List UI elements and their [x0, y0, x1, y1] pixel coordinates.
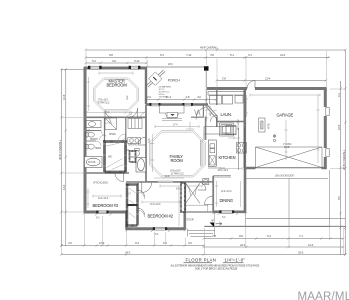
- svg-text:3'-0: 3'-0: [188, 241, 192, 245]
- window master top 2: [129, 65, 141, 70]
- svg-text:ATTIC: ATTIC: [268, 123, 271, 129]
- svg-text:4'-6: 4'-6: [112, 59, 116, 63]
- family NE wall stub: [202, 106, 204, 118]
- svg-text:3'-1: 3'-1: [248, 53, 252, 57]
- svg-text:9'-8: 9'-8: [239, 234, 243, 238]
- dining top cased opening: [213, 176, 231, 177]
- svg-text:6'0 TUB: 6'0 TUB: [88, 161, 96, 164]
- garage bottom wall: [245, 167, 327, 170]
- dimension line bottom overall: [61, 254, 345, 256]
- dimension line porch south: [146, 99, 216, 101]
- dining right exterior wall: [244, 168, 247, 212]
- family window left: [149, 103, 160, 107]
- svg-text:25'-6: 25'-6: [298, 250, 304, 254]
- dim extension verticals bottom: [61, 214, 344, 255]
- exterior wall master top: [84, 67, 147, 70]
- stoop top edge: [185, 204, 208, 206]
- entry door arc: [196, 107, 209, 120]
- svg-text:12'-8: 12'-8: [99, 241, 105, 245]
- family octagon tray: [150, 131, 206, 178]
- svg-text:9' TRAY CLG: 9' TRAY CLG: [98, 101, 110, 104]
- A/C diamond closet: [149, 72, 162, 85]
- family room south wall: [146, 181, 213, 183]
- dining bottom wall: [213, 211, 246, 214]
- master door arc: [129, 108, 138, 117]
- kitchen right counter: [239, 128, 245, 170]
- dim extension verticals top: [86, 50, 345, 87]
- garage interior micro dims: [250, 94, 320, 164]
- porch front edge: [147, 66, 206, 68]
- stoop side rails: [185, 212, 214, 229]
- hall bath wall y150: [126, 149, 129, 151]
- svg-text:49'-8" OVERALL: 49'-8" OVERALL: [200, 46, 219, 50]
- svg-text:6'-1: 6'-1: [337, 93, 341, 97]
- family room west wall: [145, 105, 147, 183]
- svg-text:9'-8: 9'-8: [109, 53, 113, 57]
- laundry door arc: [211, 115, 218, 122]
- interior dim clutter kitchen: [205, 107, 243, 170]
- dimension line bottom right upper: [204, 238, 343, 240]
- svg-text:2'-8: 2'-8: [212, 234, 216, 238]
- kitchen island: [208, 140, 216, 166]
- stoop right edge: [207, 205, 209, 212]
- svg-text:21'-4: 21'-4: [280, 53, 286, 57]
- bedroom2 bottom window: [153, 227, 167, 231]
- dimension ticks bottom: [60, 237, 346, 255]
- extra bottom ticks: [96, 237, 332, 255]
- hall micro arcs clutter: [100, 110, 217, 140]
- exterior jog bed2 left: [125, 211, 128, 229]
- kitchen upper counter: [204, 127, 236, 135]
- wall master right / porch west: [145, 68, 147, 104]
- kitchen west edge: [203, 127, 205, 141]
- dining window: [219, 210, 234, 214]
- master clutter dims: [87, 72, 133, 112]
- svg-text:3'-10: 3'-10: [134, 59, 140, 63]
- driveway front edge line: [204, 225, 345, 227]
- garage right exterior wall: [324, 88, 327, 169]
- exterior wall left: [84, 67, 87, 213]
- svg-text:11'-2 x 12'-0: 11'-2 x 12'-0: [221, 190, 232, 193]
- svg-text:6'-2: 6'-2: [163, 241, 167, 245]
- laundry counter: [208, 92, 244, 96]
- garage right window 1: [323, 107, 329, 116]
- stoop door arc: [205, 196, 214, 205]
- dimension line bottom right mid: [204, 246, 343, 248]
- svg-text:BEDROOM #3: BEDROOM #3: [93, 203, 119, 208]
- bath1 tub: [136, 158, 146, 173]
- bedroom3 micro dims: [87, 188, 122, 208]
- WIC hatched walls: [105, 142, 126, 173]
- door threshold triangle: [210, 223, 215, 228]
- window master top 1: [88, 65, 102, 70]
- svg-text:16'0 x 8'0 OH DOOR: 16'0 x 8'0 OH DOOR: [275, 175, 294, 178]
- dimension ticks top: [85, 49, 347, 82]
- svg-text:1/4"=1'-0": 1/4"=1'-0": [225, 257, 246, 262]
- svg-text:38'-8¾" OVERALL: 38'-8¾" OVERALL: [58, 139, 62, 160]
- water heater box: [203, 179, 209, 185]
- rear door opening on garage wall: [247, 87, 255, 90]
- bedroom2 top wall: [126, 181, 186, 183]
- dimension line left outer vertical: [60, 69, 62, 246]
- svg-text:PORCH: PORCH: [168, 78, 180, 82]
- dishwasher X: [209, 156, 215, 166]
- svg-text:3'-0: 3'-0: [68, 241, 72, 245]
- dimension ticks left: [60, 68, 67, 247]
- dimension extension line top-left: [61, 68, 84, 70]
- svg-text:HERS: HERS: [95, 147, 101, 150]
- family west door arc: [138, 137, 146, 145]
- toilet 1: [86, 132, 95, 137]
- svg-text:11'-4: 11'-4: [166, 95, 172, 99]
- svg-text:12' TRAY CLG: 12' TRAY CLG: [171, 172, 184, 175]
- stoop outline: [185, 211, 213, 213]
- linen hatch: [130, 151, 136, 162]
- svg-text:5'-2: 5'-2: [92, 59, 96, 63]
- svg-text:5'-0: 5'-0: [337, 196, 341, 200]
- svg-text:11'-4 x 11'-0: 11'-4 x 11'-0: [98, 197, 109, 200]
- breakfast bar edge: [201, 140, 202, 166]
- bedroom3 bottom exterior wall: [84, 211, 127, 214]
- svg-text:FLOOR PLAN: FLOOR PLAN: [186, 257, 217, 262]
- dimension line top second: [86, 57, 330, 59]
- toilet 2: [86, 144, 95, 149]
- master bath dim row: [85, 111, 145, 113]
- svg-text:12'-4: 12'-4: [308, 243, 314, 247]
- garage apron line: [245, 178, 329, 180]
- garage top exterior wall: [207, 87, 327, 90]
- master bath vanity: [86, 121, 101, 128]
- family-hall door leaf and arc: [142, 183, 152, 193]
- svg-text:28'-8¾" OVERALL: 28'-8¾" OVERALL: [342, 149, 346, 170]
- laundry south wall: [217, 121, 245, 123]
- hallway door arc center: [105, 110, 112, 117]
- window centerline bed3: [102, 216, 104, 246]
- svg-text:9'-1: 9'-1: [160, 53, 164, 57]
- patio left edge vertical: [245, 214, 247, 227]
- dining window sill ticks: [95, 213, 238, 232]
- master octagon tray: [94, 78, 139, 111]
- patio rear edge line: [246, 217, 346, 219]
- svg-text:BEDROOM: BEDROOM: [107, 82, 128, 87]
- pantry shelves: [220, 123, 234, 136]
- svg-text:13'-4: 13'-4: [62, 184, 66, 190]
- bath divider wall: [84, 140, 96, 142]
- bed walls dim ticks below: [83, 212, 247, 231]
- svg-text:BATH #1: BATH #1: [129, 144, 138, 147]
- dimension line top third: [86, 62, 147, 64]
- floor drain marks: [273, 135, 276, 142]
- svg-text:SHWR: SHWR: [109, 133, 116, 136]
- svg-text:9'-4: 9'-4: [135, 241, 139, 245]
- bedroom2 closet hatched: [127, 185, 138, 231]
- rear hall door arc: [198, 182, 206, 190]
- family window right: [182, 103, 193, 107]
- svg-text:16'-8: 16'-8: [337, 124, 341, 130]
- dimension line left inner vertical: [65, 69, 67, 246]
- svg-text:MAAR/MLS: MAAR/MLS: [298, 291, 349, 300]
- driveway divider vertical: [288, 179, 290, 227]
- svg-text:21'-4: 21'-4: [265, 76, 271, 80]
- bed3 door arc: [115, 173, 124, 182]
- laundry west wall: [216, 89, 218, 106]
- dimension line top overall: [86, 49, 345, 51]
- svg-text:BEDROOM #2: BEDROOM #2: [148, 214, 174, 219]
- svg-text:12'-8: 12'-8: [62, 94, 66, 100]
- master bottom wall: [84, 116, 147, 118]
- kitchen-garage wall: [244, 89, 247, 169]
- extra top ticks: [216, 49, 248, 59]
- driveway right edge vertical: [329, 170, 331, 226]
- svg-text:ROOM: ROOM: [171, 158, 184, 163]
- svg-text:7'-10: 7'-10: [186, 53, 192, 57]
- garage door opening: [256, 166, 322, 170]
- hall wall x125: [125, 117, 127, 173]
- bath1 toilet: [135, 149, 140, 157]
- svg-text:SLAB: SLAB: [284, 146, 290, 149]
- up arrow: [216, 222, 222, 225]
- dimension line right outer vertical: [340, 81, 342, 255]
- hall wall x104: [104, 117, 106, 141]
- foyer east wall: [216, 117, 218, 127]
- svg-text:M.BATH: M.BATH: [90, 138, 98, 141]
- bedroom2 micro dims: [142, 186, 180, 226]
- family room extra dim: [155, 125, 199, 128]
- porch edge ticks: [146, 66, 207, 68]
- hall door arcs: [105, 117, 145, 217]
- svg-text:2'-8: 2'-8: [222, 76, 226, 80]
- coat closet wall: [191, 116, 204, 118]
- svg-text:7'-1: 7'-1: [299, 234, 303, 238]
- svg-text:WIC: WIC: [108, 156, 113, 159]
- bath1 vanity: [128, 138, 141, 144]
- svg-text:4'-8: 4'-8: [210, 53, 214, 57]
- coat closet bifold zigzag: [195, 110, 201, 116]
- dimension ticks right: [339, 87, 346, 255]
- garage center dim cross: [285, 120, 288, 160]
- svg-text:10'-1 x 12'-2: 10'-1 x 12'-2: [218, 169, 229, 172]
- bath wall y130: [84, 130, 101, 132]
- svg-text:22'-1: 22'-1: [240, 243, 246, 247]
- washer box: [210, 96, 222, 105]
- island double sink: [210, 144, 215, 148]
- svg-text:5'-4: 5'-4: [267, 234, 271, 238]
- svg-text:4'-0: 4'-0: [197, 95, 201, 99]
- bedroom2 bottom exterior wall: [126, 227, 186, 230]
- dining micro dims: [215, 181, 241, 207]
- svg-text:KITCHEN: KITCHEN: [219, 155, 236, 160]
- garage right window 2: [323, 148, 329, 157]
- shower box: [105, 118, 117, 130]
- porch column black: [204, 66, 209, 71]
- fireplace: [160, 106, 185, 121]
- dimension line garage top: [217, 80, 326, 82]
- svg-text:DINING: DINING: [220, 198, 233, 203]
- hall wall above bed2: [185, 181, 213, 183]
- rear door arc: [247, 81, 255, 89]
- bedroom2 right exterior wall: [184, 182, 187, 229]
- porch east edge: [205, 70, 207, 105]
- svg-text:2'-0: 2'-0: [147, 95, 151, 99]
- kitchen south opening: [208, 167, 225, 169]
- master tub: [85, 157, 103, 168]
- svg-text:GARAGE: GARAGE: [277, 113, 294, 118]
- bed2 closet door arcs: [138, 190, 145, 215]
- svg-text:6'-1: 6'-1: [230, 53, 234, 57]
- dining west wall: [212, 176, 214, 212]
- rear entry double door X: [186, 184, 201, 204]
- interior dim clutter family room: [150, 122, 202, 188]
- porch dim ticks: [145, 98, 217, 100]
- svg-text:ADD 1" FOR BRICK LEDGE (AS REQ: ADD 1" FOR BRICK LEDGE (AS REQD): [195, 268, 237, 271]
- dryer box: [223, 96, 233, 105]
- entry diagonal wall: [206, 105, 218, 118]
- svg-text:11'-0 x 12'-6: 11'-0 x 12'-6: [150, 203, 161, 206]
- svg-text:ATTIC ACCESS: ATTIC ACCESS: [93, 182, 108, 185]
- foyer west wall: [205, 117, 207, 141]
- svg-text:LAUN.: LAUN.: [221, 112, 232, 117]
- fridge: [226, 126, 236, 135]
- bed2 east hatched closet strip: [181, 183, 185, 212]
- porch note stack: [159, 86, 172, 99]
- utility box: [235, 96, 243, 104]
- wic door arc: [118, 134, 126, 142]
- bath1 upper cabinet: [128, 119, 142, 129]
- hall bath wall y157: [129, 156, 136, 158]
- stoop steps: [188, 229, 215, 237]
- svg-text:2'-8: 2'-8: [186, 95, 190, 99]
- laundry interior ticks: [209, 95, 249, 117]
- svg-text:STOOP: STOOP: [187, 219, 195, 222]
- attic stair: [259, 118, 265, 132]
- dimension line right inner vertical: [344, 50, 346, 255]
- bath clutter arcs: [96, 118, 126, 147]
- cooktop 4 burners: [237, 143, 247, 154]
- svg-text:22'-1 x 21'-2: 22'-1 x 21'-2: [237, 119, 240, 130]
- dimension line bottom left: [61, 245, 204, 247]
- diagonal wall master corner: [147, 70, 166, 87]
- bedroom3 bottom window: [96, 210, 108, 214]
- bedroom3 top wall: [84, 172, 129, 174]
- dim extension horizontals left: [62, 89, 345, 226]
- garage door X box: [256, 147, 323, 168]
- svg-text:24'-2: 24'-2: [125, 250, 131, 254]
- family room front wall: [146, 103, 208, 106]
- family south opening: [158, 181, 173, 184]
